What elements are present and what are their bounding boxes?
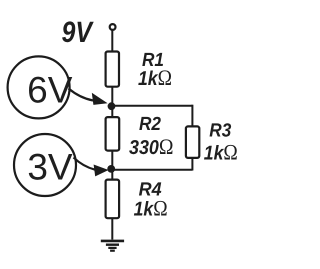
svg-text:1kΩ: 1kΩ [134,196,168,221]
resistor R3 [186,126,199,157]
node A junction dot [108,102,116,110]
svg-text:9V: 9V [62,16,94,49]
svg-text:3V: 3V [27,146,73,187]
resistor R4 [106,180,120,219]
wire R2 to node B [111,151,113,180]
source circle 3V [14,134,76,196]
wire R3 branch vertical top [191,105,193,127]
source circle 6V [8,56,70,118]
svg-text:R3: R3 [209,120,231,141]
wire node B to R3 branch bottom [112,169,192,171]
svg-text:1kΩ: 1kΩ [204,140,238,165]
svg-text:R2: R2 [139,114,161,135]
wire R4 to ground [111,218,113,239]
ground [101,241,124,251]
node B junction dot [107,165,115,173]
wire R1 to node A [111,87,113,117]
wire R3 branch vertical bottom [191,158,193,171]
svg-text:1kΩ: 1kΩ [138,65,172,90]
svg-text:330Ω: 330Ω [129,134,174,159]
arrow 6V to node A [69,89,94,101]
wire node A to R3 branch [112,105,192,107]
arrow 3V to node B [74,158,96,170]
resistor R2 [106,117,120,151]
resistor R1 [106,52,119,87]
svg-text:6V: 6V [27,70,73,111]
wire main vertical top (9V terminal to R1) [111,31,113,53]
terminal 9V [110,24,116,30]
